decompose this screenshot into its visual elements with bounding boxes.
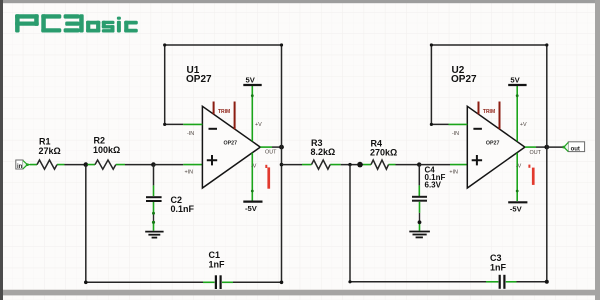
wire in to R1 [28, 164, 30, 166]
svg-text:OP27: OP27 [186, 74, 212, 85]
capacitor C1 [203, 250, 233, 289]
U2 red no-connect flag at -V [528, 165, 534, 185]
U1 pin OUT [260, 146, 272, 148]
bottom gray bar [0, 290, 600, 296]
resistor R3 [302, 138, 341, 169]
svg-text:R2: R2 [94, 136, 106, 146]
U2 -5V power bar [508, 202, 527, 213]
resistor R2 [88, 136, 126, 170]
port IN [16, 160, 29, 170]
U1 pin +V [251, 85, 253, 141]
wire node F down to bottom feedback [546, 147, 548, 282]
svg-text:-5V: -5V [245, 204, 258, 213]
svg-text:-IN: -IN [452, 131, 459, 137]
svg-text:OUT: OUT [530, 150, 542, 156]
wire node C down to main line and bottom [281, 147, 283, 282]
node F junction (U2 output) [544, 145, 549, 150]
svg-text:C1: C1 [209, 250, 221, 260]
wire R4 to node E [396, 164, 420, 166]
U1 -5V power bar [243, 202, 262, 213]
svg-text:C3: C3 [490, 253, 502, 263]
U2 5V power bar [508, 76, 526, 86]
svg-text:+IN: +IN [185, 170, 194, 176]
svg-text:in: in [17, 164, 23, 170]
ground for C2 [145, 232, 163, 238]
logo letter B styled as 3 [64, 14, 80, 18]
logo letter s [102, 21, 115, 24]
U1 5V power bar [243, 76, 261, 86]
svg-text:OP27: OP27 [451, 74, 477, 85]
svg-text:OUT: OUT [265, 150, 277, 156]
svg-text:TRIM: TRIM [483, 109, 495, 115]
node C junction (U1 output) [279, 145, 284, 150]
pin -IN stub U1 [183, 123, 202, 125]
svg-text:0.1nF: 0.1nF [171, 204, 195, 214]
wire R3 to node D [341, 164, 363, 166]
node D corner junction [348, 163, 351, 166]
svg-text:out: out [571, 146, 580, 152]
svg-text:8.2kΩ: 8.2kΩ [311, 147, 336, 157]
svg-text:-V: -V [251, 164, 257, 170]
wire node D down to bottom feedback [349, 165, 351, 282]
left dark bar [0, 0, 3, 300]
U1 TRIM pins [214, 102, 235, 130]
svg-text:-5V: -5V [510, 205, 523, 214]
svg-text:+V: +V [520, 122, 527, 128]
capacitor C2 [146, 165, 195, 231]
bottom feedback wire with C3 [350, 281, 486, 283]
capacitor C3 [486, 253, 517, 289]
resistor R4 [363, 139, 397, 170]
wire node C to R3 [282, 164, 303, 166]
logo letter c [124, 21, 138, 25]
wire OUT to node C [272, 146, 282, 148]
logo letter P [15, 14, 20, 32]
U1 feedback wire -IN loop over top [165, 45, 282, 147]
U2 pin +V [516, 85, 518, 141]
pin +IN stub U1 [183, 164, 202, 166]
U2 TRIM pins [479, 102, 500, 130]
top gray bar [0, 0, 600, 3]
logo letter i [117, 17, 121, 20]
node A junction [84, 162, 89, 167]
wire node F to out port [547, 146, 564, 148]
svg-text:OP27: OP27 [224, 141, 238, 147]
node B junction [151, 162, 156, 167]
svg-text:TRIM: TRIM [218, 109, 230, 115]
svg-text:27kΩ: 27kΩ [39, 146, 61, 156]
node E junction [417, 162, 421, 166]
svg-text:1nF: 1nF [209, 260, 226, 270]
wire node A down to bottom feedback [85, 165, 87, 283]
svg-text:+IN: +IN [449, 170, 458, 176]
svg-text:1nF: 1nF [490, 263, 507, 273]
svg-text:5V: 5V [246, 76, 256, 85]
wire node E to +IN pin [419, 164, 450, 166]
svg-text:6.3V: 6.3V [425, 181, 442, 190]
svg-text:5V: 5V [510, 76, 520, 85]
node T junction at main line [280, 163, 284, 167]
U2 feedback wire -IN loop over top [431, 45, 546, 147]
svg-text:+V: +V [255, 122, 262, 128]
corner dots U1 feedback [163, 123, 166, 126]
logo letter C [41, 14, 61, 18]
PCBasic logo [15, 14, 138, 32]
svg-text:OP27: OP27 [486, 141, 500, 147]
wire R2 to node B [125, 164, 153, 166]
right gray bar [595, 0, 600, 300]
logo letter a [86, 21, 100, 25]
svg-text:-V: -V [516, 164, 522, 170]
capacitor C4 [412, 165, 446, 231]
svg-text:R1: R1 [39, 137, 51, 147]
port OUT [563, 142, 585, 153]
resistor R1 [30, 137, 65, 170]
pin -IN stub U2 [449, 123, 468, 125]
U1 pin -V [251, 153, 253, 201]
op-amp U2 [451, 65, 525, 188]
svg-text:270kΩ: 270kΩ [370, 148, 397, 158]
U1 red no-connect flag at -V [265, 165, 270, 189]
ground for C4 [409, 232, 430, 238]
pin +IN stub U2 [450, 164, 467, 166]
op-amp U1 [186, 65, 260, 188]
corner dots U2 feedback [430, 123, 433, 126]
svg-text:-IN: -IN [187, 131, 194, 137]
U2 pin -V [516, 153, 518, 201]
wire node B to +IN pin [153, 164, 183, 166]
U2 pin OUT [525, 146, 536, 148]
junction dot at R4 pin [357, 162, 363, 168]
wire R1 to node A [65, 164, 86, 166]
svg-text:100kΩ: 100kΩ [93, 145, 120, 155]
wire OUT to node F [536, 146, 547, 148]
bottom feedback wire with C1 [86, 281, 203, 283]
